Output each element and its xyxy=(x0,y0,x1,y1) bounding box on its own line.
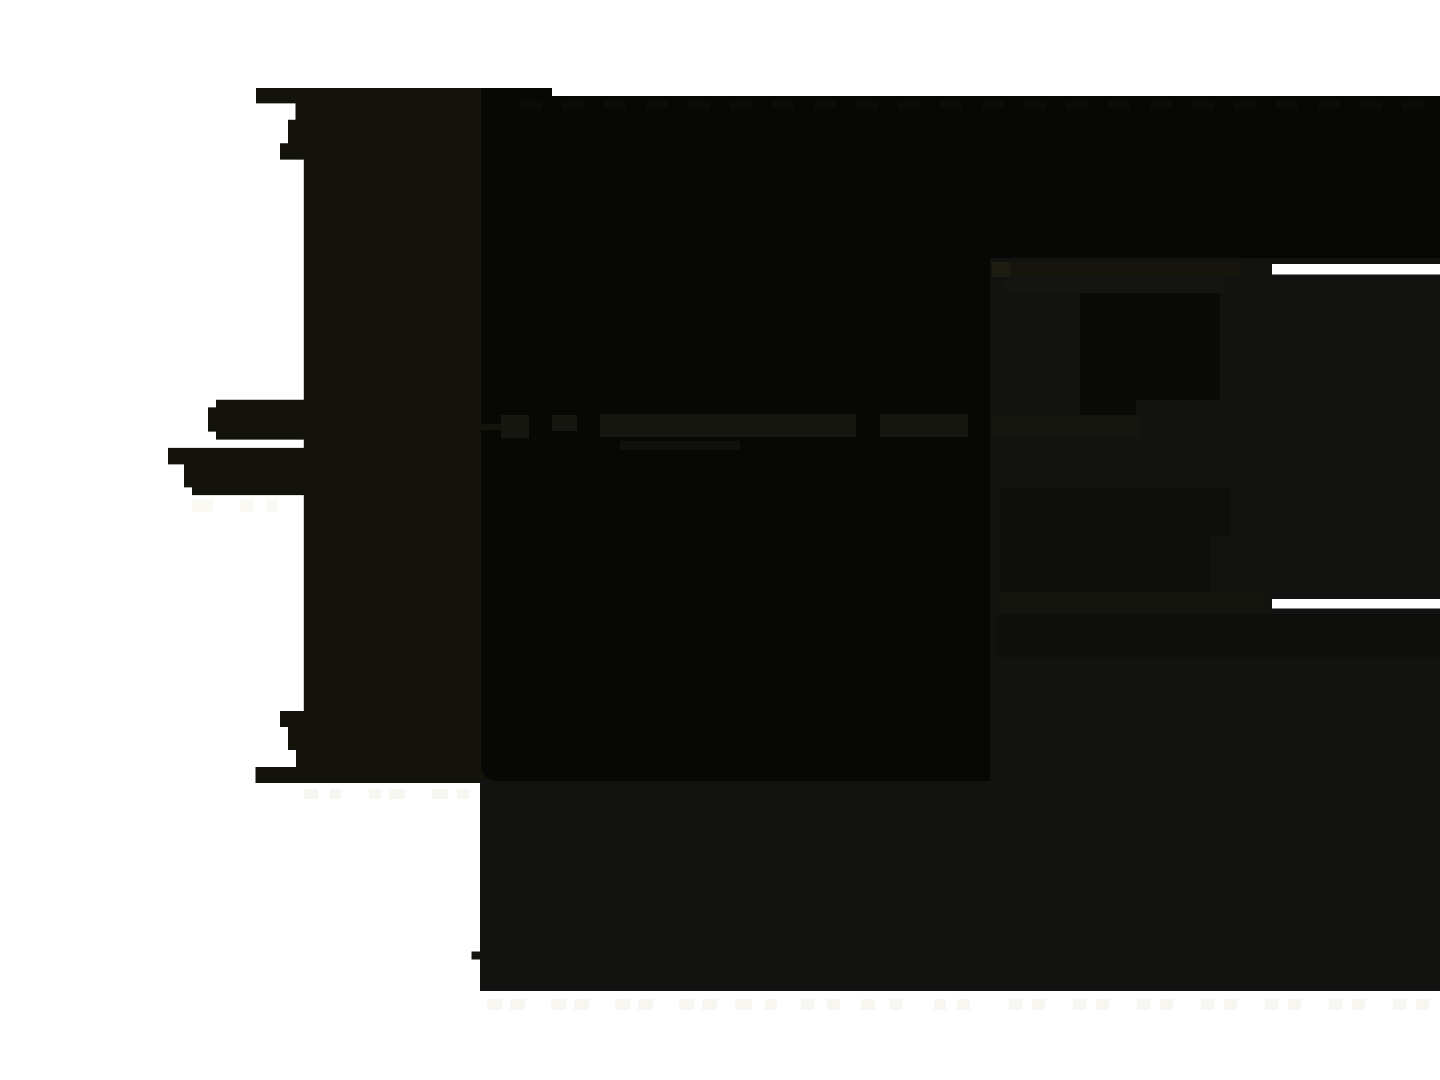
ghost ticks under foot serif xyxy=(304,789,469,799)
corner filler behind hero rounding xyxy=(478,755,502,783)
notch tab on left edge of bottom band xyxy=(472,952,481,960)
giant letter glyph (light-black column with serifs and crossbars) xyxy=(168,88,481,783)
darker card row 1 in right column xyxy=(1000,488,1230,536)
dark hero block (top band + tall dark rectangle, rounded bottom-left) xyxy=(481,88,1440,781)
faint navbar glyph dashes xyxy=(520,101,1424,109)
faint list row upper (right column) xyxy=(992,262,1240,277)
darker blob tail xyxy=(1080,400,1136,415)
faint list row lower (right column) xyxy=(1000,592,1270,613)
faint sub row upper xyxy=(1004,279,1224,293)
mid-dark right column xyxy=(990,258,1440,991)
ghost ruler ticks under bottom edge xyxy=(487,999,1429,1010)
faint headline band row (dashed lighter strip mid-left) xyxy=(481,414,1140,450)
mid-dark bottom band xyxy=(480,781,990,991)
ghost ticks under crossbar xyxy=(192,499,278,512)
white highlight stripe lower right xyxy=(1272,599,1440,609)
darker card row 1b in right column xyxy=(1000,536,1210,592)
darker blob in right column xyxy=(1080,280,1220,400)
white highlight stripe upper right xyxy=(1272,264,1440,275)
darker card row 2 in right column xyxy=(997,614,1440,658)
arrow tip of list row upper xyxy=(992,262,1010,277)
